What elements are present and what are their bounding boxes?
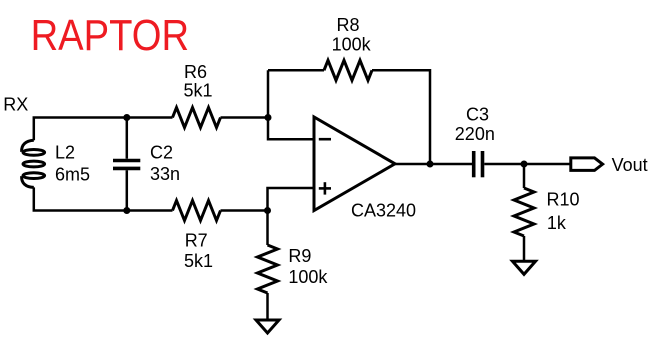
svg-text:6m5: 6m5 bbox=[55, 165, 90, 185]
svg-text:RAPTOR: RAPTOR bbox=[31, 11, 190, 60]
svg-text:5k1: 5k1 bbox=[184, 81, 213, 101]
svg-text:CA3240: CA3240 bbox=[351, 200, 416, 220]
svg-text:R9: R9 bbox=[288, 246, 311, 266]
svg-text:L2: L2 bbox=[55, 142, 75, 162]
svg-text:C3: C3 bbox=[466, 104, 489, 124]
svg-text:RX: RX bbox=[3, 95, 28, 115]
svg-text:100k: 100k bbox=[332, 35, 372, 55]
svg-text:100k: 100k bbox=[288, 267, 328, 287]
svg-text:R10: R10 bbox=[547, 189, 580, 209]
svg-text:220n: 220n bbox=[455, 124, 495, 144]
svg-text:C2: C2 bbox=[150, 143, 173, 163]
svg-text:33n: 33n bbox=[150, 164, 180, 184]
svg-text:R7: R7 bbox=[185, 231, 208, 251]
svg-text:R8: R8 bbox=[337, 15, 360, 35]
svg-text:R6: R6 bbox=[184, 62, 207, 82]
svg-text:Vout: Vout bbox=[612, 155, 648, 175]
svg-text:1k: 1k bbox=[547, 213, 567, 233]
svg-text:5k1: 5k1 bbox=[184, 251, 213, 271]
